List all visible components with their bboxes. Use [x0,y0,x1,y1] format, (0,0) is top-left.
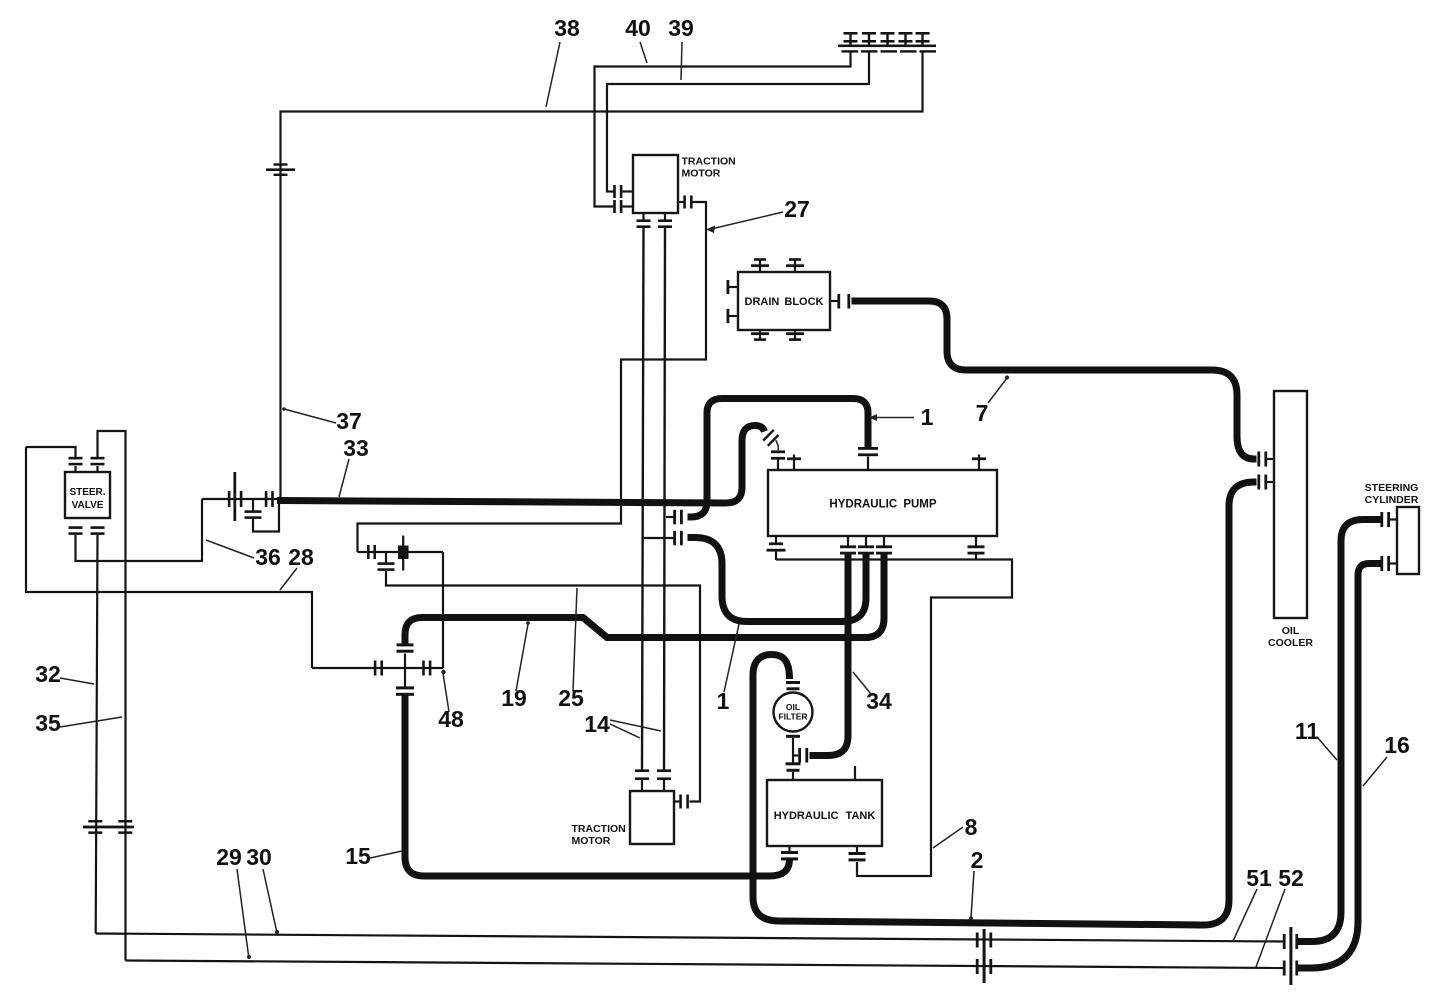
drain block left fitting (y=287) [727,280,739,294]
oil cooler upper fitting [1257,452,1274,467]
left fitting pair (y=517) [666,510,683,525]
svg-text:29: 29 [216,844,242,870]
hose 2 (filter arch, down, along bottom, up to oil cooler) [753,482,1257,925]
tee with union to tube 25 [378,552,395,571]
tube 38 (manifold long return line to junction at hose 33) [281,53,923,499]
cross stem between hose 19 and hose 15 [404,654,406,688]
hose 19 (pump to lower cross fitting) [405,554,884,645]
tee fitting to hose 34 [793,748,808,763]
tube 25 (case drain to bottom motor) [386,571,700,802]
drain block bottom fitting (x=760) [751,330,769,341]
svg-text:DRAIN BLOCK: DRAIN BLOCK [745,296,824,308]
drain block right fitting [830,294,850,309]
svg-text:8: 8 [965,814,978,840]
pump top tee fitting (x=794) [787,455,801,471]
label 11 [1295,718,1337,760]
label 8 [933,814,978,848]
dot on leader 30 [275,930,279,934]
dot on leader 2 [969,917,973,921]
svg-text:FILTER: FILTER [778,712,807,722]
svg-text:48: 48 [438,706,464,732]
traction motor (top) box [633,155,678,213]
union fitting on hose 19 above cross [397,643,414,652]
manifold dashed gasket line [842,50,937,52]
steer valve box [65,472,110,518]
tube 8 (tank to pump case line) [776,560,1012,877]
svg-text:COOLER: COOLER [1268,637,1313,649]
manifold fitting F5 (I-symbol) [916,32,930,45]
bottom motor top port fitting (x=664) [657,769,671,791]
label 35 [35,710,122,736]
pump bottom hose fitting (x=866, hose 1 return) [858,536,874,555]
tube 36/28 loop (top-left port to left riser) [26,447,76,457]
label 16 [1363,732,1410,786]
label 1 [717,624,739,714]
manifold fitting F2 (I-symbol) [862,32,876,45]
fitting pair on hose 33 inlet [265,491,274,507]
hose 33 (steering supply hose to pump quick-disconnect) [277,426,765,504]
manifold fitting F3 (I-symbol) [881,32,895,45]
label 14 leaders [610,720,661,738]
drain drop tube (x=443) [442,552,444,668]
svg-text:33: 33 [343,435,369,461]
manifold bar (top right header plate) [838,45,936,48]
tube 35 (top-right port over to outer riser, down to line 52) [98,431,126,961]
hose 16 (line 52 coupling up to cylinder bottom port) [1298,564,1381,969]
svg-text:MOTOR: MOTOR [682,168,721,180]
label 29 [216,844,249,959]
label 27 [711,196,810,229]
label 40 [625,15,651,63]
arrowhead on leader 1 [869,414,877,421]
cylinder bottom fitting [1380,556,1397,571]
hose 15 (cross fitting to hydraulic tank bottom) [405,696,790,877]
line 51 (long tube to steering cylinder) [96,934,1284,942]
label 52 [1256,865,1304,967]
label 25 [558,588,584,711]
svg-text:11: 11 [1295,718,1320,744]
bulkhead plate on left risers [83,820,134,834]
tube 14 (left motor supply line) [642,228,644,770]
label 19 [501,624,528,711]
oil cooler lower fitting [1257,475,1274,490]
top motor left port fitting (upper, y=191) [613,185,633,198]
label 39 [668,15,694,80]
label 14 [584,711,610,737]
steer valve bottom-right port fitting [91,526,105,535]
label 1 [875,404,934,430]
tube 39 (manifold to top traction motor upper-left port) [607,53,869,192]
top motor bottom port fitting (x=665) [658,213,672,228]
steering cylinder box [1397,507,1419,574]
svg-text:39: 39 [668,15,694,41]
manifold fitting F4 (I-symbol) [899,32,913,45]
mid coupling on lines 51/52 [976,929,992,983]
steer valve bottom-left port fitting [69,526,83,535]
pump top hose-1 fitting (x=868) [858,447,878,470]
bottom motor right port fitting [674,795,689,809]
shutoff valve (filled) on drain line [398,536,409,571]
label 30 [246,844,277,933]
oil cooler box [1274,391,1307,618]
pump bottom hose fitting (x=848, hose 34) [840,536,856,555]
label 51 [1233,865,1272,941]
top motor right port fitting [678,196,693,209]
cross manifold line 48 [312,667,443,669]
svg-text:40: 40 [625,15,651,41]
pump top fitting (x=778) [771,450,785,470]
svg-text:OIL: OIL [786,702,800,712]
svg-text:37: 37 [336,408,362,434]
pump bottom fitting (x=976, to tube 8) [968,536,985,560]
right coupling on lines 51/52 [1283,927,1298,985]
hose 1 (pump top loop to left fitting) [688,399,869,518]
svg-text:32: 32 [35,661,61,687]
oil filter circle [774,693,813,732]
label 2 [971,847,984,918]
svg-text:30: 30 [246,844,272,870]
label 36 [206,540,281,570]
tank top breather stub [854,766,856,780]
bulkhead fitting at hose 33 inlet [202,472,278,521]
svg-text:1: 1 [921,404,934,430]
pump top tee fitting (x=979) [972,455,986,471]
svg-text:36: 36 [255,544,281,570]
dot on leader 19 [526,621,530,625]
pump bottom fitting (x=776, to tube 8) [767,536,786,560]
drain block box [738,272,830,330]
drain block bottom fitting (x=795) [786,330,804,341]
dot on leader 29 [247,955,251,959]
tube 32 (bottom-right port down to line 51) [96,535,98,934]
label 32 [35,661,94,687]
svg-text:STEER.: STEER. [69,487,105,498]
svg-text:1: 1 [717,688,730,714]
drain block top fitting (x=760) [751,258,769,272]
filter top fitting [786,681,800,690]
svg-text:MOTOR: MOTOR [572,835,611,847]
svg-text:25: 25 [558,685,584,711]
steer valve top-left port fitting [69,457,83,472]
svg-text:27: 27 [784,196,810,222]
tube 28 (steer valve return to manifold cross) [26,447,312,668]
hose (lower 1) pump return loop [688,538,867,622]
traction motor (bottom) box [630,791,674,844]
dot on leader 7 [1005,376,1009,380]
drain block top fitting (x=795) [786,258,804,272]
top motor bottom port fitting (x=643.5) [637,213,651,228]
drain block left fitting (y=316) [727,309,739,323]
svg-text:52: 52 [1278,865,1304,891]
svg-text:38: 38 [554,15,580,41]
svg-text:19: 19 [501,685,527,711]
hose 34 (pump to filter tee) [810,554,849,756]
filter to tank stem [792,738,794,763]
svg-text:VALVE: VALVE [72,500,104,511]
filter bottom fitting [786,735,800,738]
top motor left port fitting (lower, y=207) [613,200,633,213]
hose 7 (drain block to oil cooler) [852,301,1257,459]
hose 11 (line 51 coupling up to cylinder top port) [1298,520,1381,942]
pump bottom hose fitting (x=884, hose 19) [876,536,892,555]
fitting pair on tube 27 drain line (y=552) [358,545,444,559]
union fitting filter-to-tank [786,762,801,780]
label 37 [284,408,362,434]
arrowhead on leader 27 [706,226,715,234]
svg-text:HYDRAULIC TANK: HYDRAULIC TANK [774,810,876,822]
label 48 [438,673,464,732]
bottom motor top port fitting (x=642) [635,769,649,791]
label 28 [280,544,314,590]
tube 14 (right motor supply line) [664,228,665,770]
svg-text:TRACTION: TRACTION [682,156,736,168]
line 52 (long tube to steering cylinder) [126,961,1284,969]
hydraulic tank box [767,780,882,846]
svg-text:STEERING: STEERING [1365,482,1419,494]
steer valve top-right port fitting [91,457,105,472]
fitting pair left of cross [374,661,383,676]
svg-text:51: 51 [1246,865,1272,891]
left fitting pair (y=537) [644,531,683,546]
label 7 [976,378,1007,426]
quick disconnect break symbol [763,430,778,451]
label 34 [853,672,892,714]
svg-text:14: 14 [584,711,610,737]
svg-text:HYDRAULIC PUMP: HYDRAULIC PUMP [829,499,936,511]
label 33 [339,435,369,497]
dot on leader 37 [282,407,286,411]
tube 27 (drain: top motor right port down and across) [358,202,707,552]
union fitting on hose 15 below cross [396,686,414,695]
svg-text:15: 15 [345,843,371,869]
tube 36 (bottom-left port to fitting cluster at hose 33) [76,499,203,561]
svg-text:TRACTION: TRACTION [572,823,626,835]
fitting pair right of cross [422,661,431,676]
orifice loop below fitting [245,499,280,532]
label 15 [345,843,402,869]
label 38 [546,15,580,107]
manifold fitting F1 (I-symbol) [844,32,858,45]
svg-text:2: 2 [971,847,984,873]
dot on leader 48 [441,670,445,674]
hydraulic pump box [768,470,997,536]
svg-text:CYLINDER: CYLINDER [1365,494,1419,506]
tank bottom-left fitting [781,846,798,860]
svg-text:28: 28 [288,544,314,570]
tank bottom-right fitting [849,846,866,861]
tube 40 (manifold to top traction motor lower-left port) [595,53,851,207]
union fitting on tube 38 [266,163,295,176]
svg-text:OIL: OIL [1282,625,1300,637]
svg-text:16: 16 [1384,732,1410,758]
svg-text:35: 35 [35,710,61,736]
cylinder top fitting [1380,512,1397,527]
svg-text:7: 7 [976,400,989,426]
